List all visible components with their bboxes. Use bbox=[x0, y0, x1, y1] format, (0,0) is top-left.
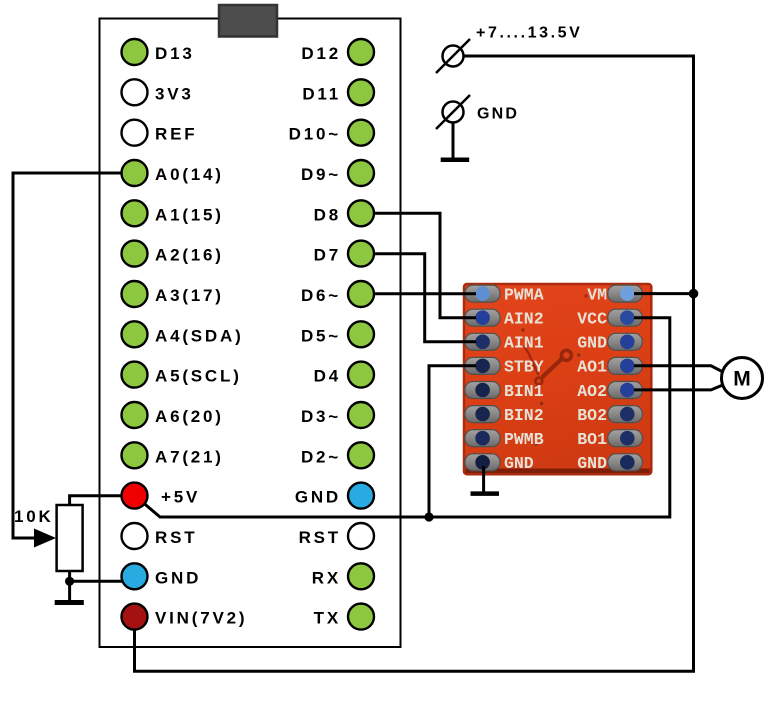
terminal GND bbox=[436, 95, 470, 129]
pin RX (right) bbox=[348, 563, 374, 589]
svg-text:D13: D13 bbox=[155, 44, 195, 63]
pin D12 (right) bbox=[348, 39, 374, 65]
svg-text:A2(16): A2(16) bbox=[155, 246, 224, 265]
arduino board outline bbox=[100, 19, 401, 648]
terminal +7....13.5V bbox=[436, 39, 470, 73]
pad VCC (driver right) bbox=[608, 309, 643, 326]
pad VM (driver right) bbox=[608, 285, 643, 302]
pad BIN1 (driver left) bbox=[465, 382, 500, 399]
svg-text:A7(21): A7(21) bbox=[155, 447, 224, 466]
svg-text:BO1: BO1 bbox=[577, 430, 607, 449]
svg-text:STBY: STBY bbox=[504, 358, 544, 377]
ground (potentiometer) bbox=[55, 600, 84, 605]
wire D8 to AIN2 bbox=[374, 213, 476, 317]
pad BO1 (driver right) bbox=[608, 430, 643, 447]
pad AIN2 (driver left) bbox=[465, 309, 500, 326]
svg-text:A6(20): A6(20) bbox=[155, 407, 224, 426]
pin D5~ (right) bbox=[348, 321, 374, 347]
pad AO1 (driver right) bbox=[608, 357, 643, 374]
svg-text:D2~: D2~ bbox=[301, 447, 341, 466]
svg-text:TX: TX bbox=[314, 609, 341, 628]
pad STBY (driver left) bbox=[465, 357, 500, 374]
pin D9~ (right) bbox=[348, 160, 374, 186]
wire AO1 to motor bbox=[634, 366, 724, 373]
svg-text:PWMB: PWMB bbox=[504, 430, 544, 449]
svg-text:GND: GND bbox=[477, 106, 519, 123]
svg-text:VM: VM bbox=[587, 285, 607, 304]
pin D3~ (right) bbox=[348, 402, 374, 428]
svg-text:REF: REF bbox=[155, 125, 197, 144]
usb connector bbox=[219, 5, 277, 37]
pin RST (left) bbox=[122, 523, 148, 549]
svg-text:BIN1: BIN1 bbox=[504, 382, 544, 401]
svg-text:A1(15): A1(15) bbox=[155, 205, 224, 224]
wire +5V to VCC bbox=[140, 318, 670, 517]
pin REF (left) bbox=[122, 120, 148, 146]
pin D13 (left) bbox=[122, 39, 148, 65]
pin A5(SCL) (left) bbox=[122, 362, 148, 388]
svg-text:D3~: D3~ bbox=[301, 407, 341, 426]
junction pot-bottom bbox=[65, 577, 74, 586]
junction VM/power rail bbox=[689, 289, 699, 299]
pin GND (right) bbox=[348, 483, 374, 509]
pad BO2 (driver right) bbox=[608, 406, 643, 423]
trace artwork on driver board bbox=[521, 294, 587, 445]
driver board TB6612FNG bbox=[464, 284, 651, 474]
pin RST (right) bbox=[348, 523, 374, 549]
wire AO2 to motor bbox=[634, 385, 724, 390]
pin A1(15) (left) bbox=[122, 200, 148, 226]
pin A2(16) (left) bbox=[122, 241, 148, 267]
pin D6~ (right) bbox=[348, 281, 374, 307]
wire power rail +7..13.5V to VIN bbox=[135, 56, 694, 671]
wire D7 to AIN1 bbox=[374, 254, 476, 342]
svg-text:A0(14): A0(14) bbox=[155, 165, 224, 184]
wire pot bottom to GND pin bbox=[68, 580, 123, 583]
svg-text:BO2: BO2 bbox=[577, 406, 607, 425]
wire D6 to PWMA bbox=[374, 292, 476, 295]
svg-text:D11: D11 bbox=[302, 84, 341, 103]
svg-text:GND: GND bbox=[295, 488, 341, 507]
wire VM to power rail bbox=[634, 292, 694, 295]
ground (driver board) bbox=[471, 491, 500, 496]
pin 3V3 (left) bbox=[122, 79, 148, 105]
svg-text:AIN1: AIN1 bbox=[504, 334, 544, 353]
pin D2~ (right) bbox=[348, 442, 374, 468]
svg-text:+7....13.5V: +7....13.5V bbox=[476, 25, 582, 42]
svg-text:D8: D8 bbox=[314, 205, 341, 224]
resistor 10K potentiometer bbox=[57, 505, 83, 571]
wire GND (driver) to ground bbox=[482, 466, 485, 492]
pad PWMA (driver left) bbox=[465, 285, 500, 302]
svg-text:PWMA: PWMA bbox=[504, 285, 544, 304]
svg-text:AO2: AO2 bbox=[577, 382, 607, 401]
svg-text:BIN2: BIN2 bbox=[504, 406, 544, 425]
pin A6(20) (left) bbox=[122, 402, 148, 428]
wire GND terminal to ground bbox=[452, 123, 455, 158]
svg-text:D5~: D5~ bbox=[301, 326, 341, 345]
pin A4(SDA) (left) bbox=[122, 321, 148, 347]
pad AO2 (driver right) bbox=[608, 382, 643, 399]
pin A7(21) (left) bbox=[122, 442, 148, 468]
potentiometer wiper arrow bbox=[34, 529, 56, 548]
pad PWMB (driver left) bbox=[465, 430, 500, 447]
svg-text:AO1: AO1 bbox=[577, 358, 607, 377]
pad AIN1 (driver left) bbox=[465, 333, 500, 350]
pin TX (right) bbox=[348, 604, 374, 630]
svg-text:A5(SCL): A5(SCL) bbox=[155, 367, 242, 386]
svg-text:D10~: D10~ bbox=[289, 125, 341, 144]
svg-text:AIN2: AIN2 bbox=[504, 310, 544, 329]
svg-text:GND: GND bbox=[577, 454, 607, 473]
pad GND (driver right) bbox=[608, 333, 643, 350]
svg-text:D4: D4 bbox=[314, 367, 341, 386]
wire A0 to potentiometer wiper bbox=[13, 173, 121, 538]
wire pot top to +5V bbox=[70, 496, 122, 506]
pin VIN(7V2) (left) bbox=[122, 604, 148, 630]
svg-text:VCC: VCC bbox=[577, 310, 607, 329]
svg-text:D12: D12 bbox=[301, 44, 341, 63]
ground (supply) bbox=[441, 158, 470, 163]
svg-text:+5V: +5V bbox=[161, 488, 200, 507]
svg-text:A3(17): A3(17) bbox=[155, 286, 224, 305]
pad GND (driver right) bbox=[608, 454, 643, 471]
svg-text:3V3: 3V3 bbox=[155, 84, 194, 103]
wire STBY to junction bbox=[429, 366, 476, 517]
pin D4 (right) bbox=[348, 362, 374, 388]
motor M bbox=[722, 358, 763, 399]
pin D7 (right) bbox=[348, 241, 374, 267]
svg-text:GND: GND bbox=[504, 454, 534, 473]
pin A0(14) (left) bbox=[122, 160, 148, 186]
svg-text:10K: 10K bbox=[14, 507, 54, 526]
wire pot bottom to ground bbox=[68, 570, 71, 600]
pin D10~ (right) bbox=[348, 120, 374, 146]
pin GND (left) bbox=[122, 563, 148, 589]
pad BIN2 (driver left) bbox=[465, 406, 500, 423]
pad GND (driver left) bbox=[465, 454, 500, 471]
svg-text:D7: D7 bbox=[314, 246, 341, 265]
pin D11 (right) bbox=[348, 79, 374, 105]
junction STBY/+5V bbox=[424, 512, 433, 521]
svg-text:D9~: D9~ bbox=[301, 165, 341, 184]
svg-text:GND: GND bbox=[577, 334, 607, 353]
svg-text:RST: RST bbox=[299, 528, 341, 547]
pin A3(17) (left) bbox=[122, 281, 148, 307]
svg-text:GND: GND bbox=[155, 568, 201, 587]
svg-text:M: M bbox=[733, 368, 751, 391]
pin +5V (left) bbox=[122, 483, 148, 509]
svg-text:RX: RX bbox=[312, 568, 341, 587]
svg-text:A4(SDA): A4(SDA) bbox=[155, 326, 244, 345]
svg-text:D6~: D6~ bbox=[301, 286, 341, 305]
svg-text:VIN(7V2): VIN(7V2) bbox=[155, 609, 247, 628]
svg-text:RST: RST bbox=[155, 528, 197, 547]
pin D8 (right) bbox=[348, 200, 374, 226]
